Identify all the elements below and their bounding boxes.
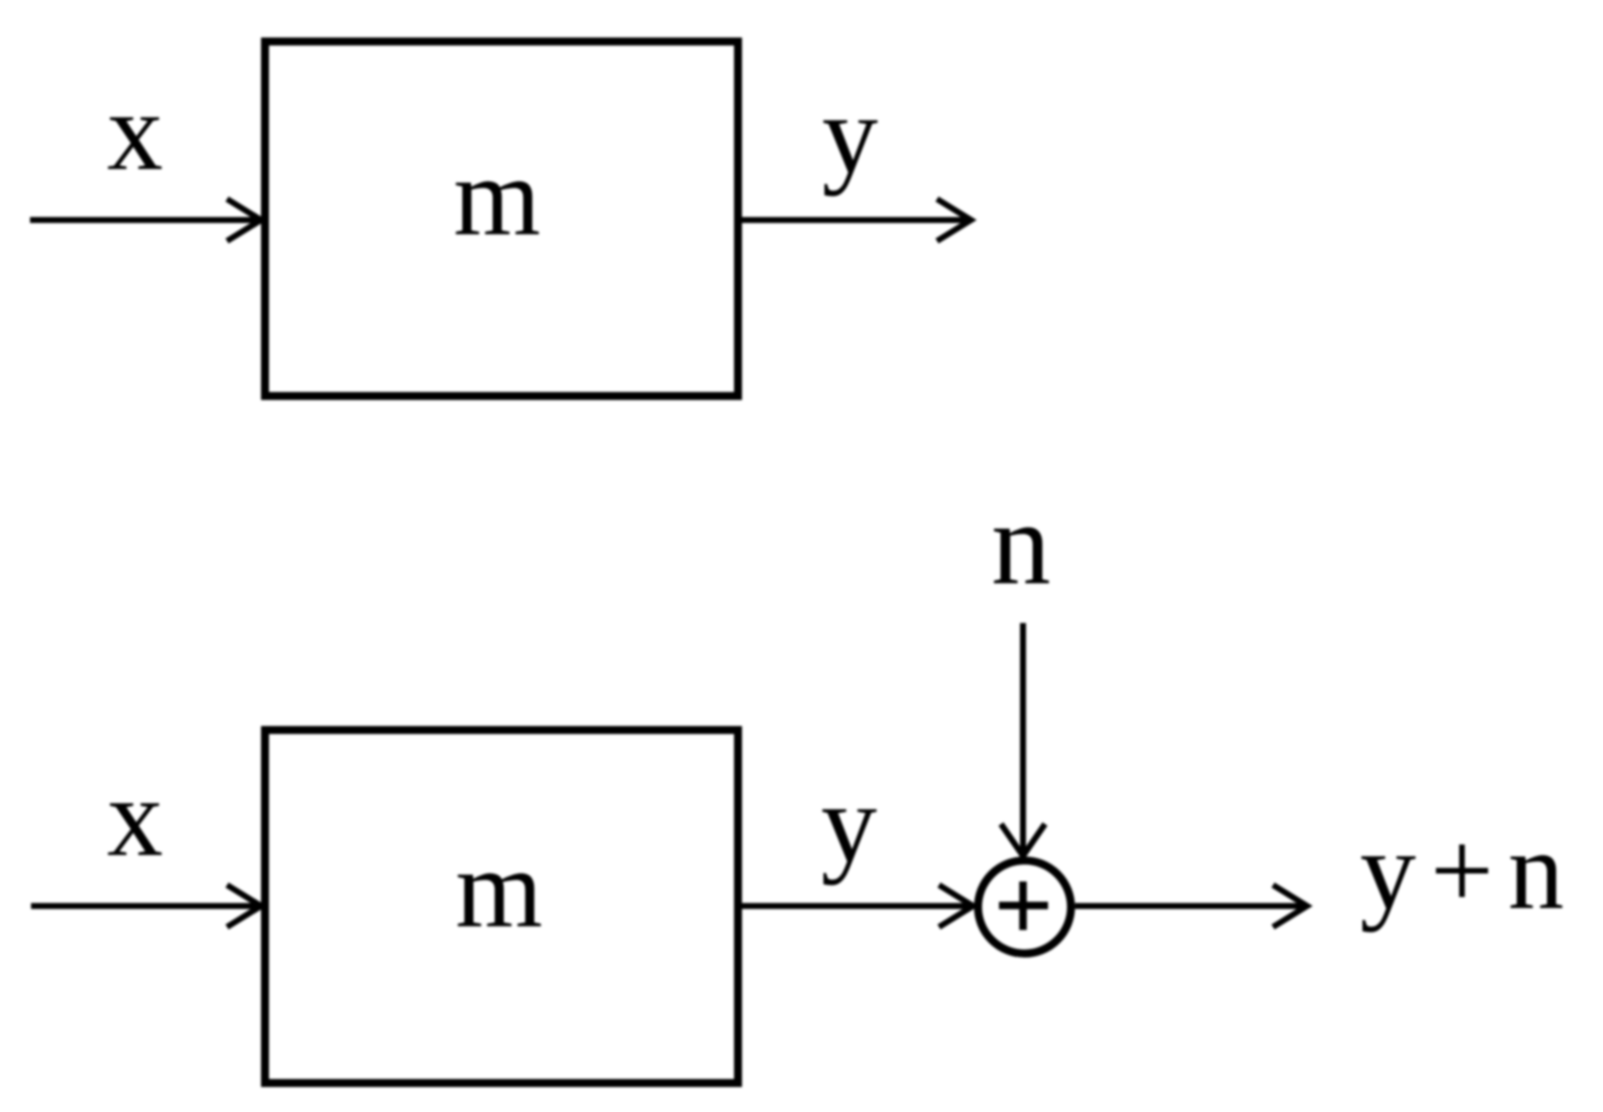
svg-text:x: x <box>107 756 163 880</box>
wire: n vertical arrow into summer <box>1001 623 1045 856</box>
wire: bottom input arrow x <box>31 885 261 927</box>
svg-text:n: n <box>991 477 1051 609</box>
wire: y from block to summer <box>742 885 973 927</box>
svg-text:m: m <box>455 827 542 951</box>
summing junction (adder) <box>978 861 1071 954</box>
svg-text:y: y <box>822 73 878 197</box>
svg-text:y + n: y + n <box>1360 809 1564 933</box>
wire: output arrow y+n <box>1075 885 1307 927</box>
svg-text:y: y <box>821 762 877 886</box>
svg-text:x: x <box>107 70 163 194</box>
wire: top input arrow x <box>30 199 261 241</box>
block m (top) <box>265 42 738 397</box>
wire: top output arrow y <box>742 199 971 241</box>
block m (bottom) <box>265 730 738 1083</box>
svg-text:m: m <box>453 135 540 259</box>
